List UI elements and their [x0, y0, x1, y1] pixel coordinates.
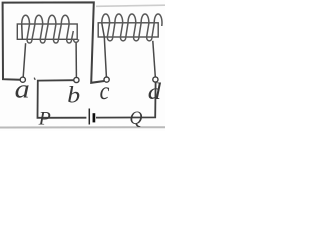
wire lead c: [102, 23, 107, 77]
terminal d: [153, 77, 158, 82]
terminal b: [74, 77, 79, 82]
wire lead a: [22, 24, 26, 77]
svg-text:Q: Q: [130, 108, 143, 129]
terminal c: [104, 77, 109, 82]
battery BT1 short plate: [93, 113, 96, 122]
coil L1 core: [17, 24, 77, 39]
wire lead d: [153, 41, 156, 77]
coil L2 winding: [102, 14, 162, 41]
wire b to battery: [38, 80, 87, 118]
terminal a: [20, 77, 25, 82]
wire a to c top link: [3, 2, 105, 82]
wire lead b: [75, 43, 77, 78]
svg-text:b: b: [67, 83, 80, 108]
svg-text:P: P: [38, 109, 51, 129]
coil L2 core: [98, 23, 158, 37]
coil L1 winding: [22, 15, 79, 43]
battery BT1 long plate: [88, 109, 90, 125]
wire battery to d: [96, 82, 156, 117]
